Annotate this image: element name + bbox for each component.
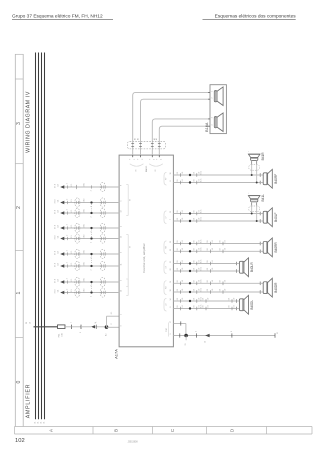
connector pin B40LF x196.8 [196,212,198,216]
wire branch to amp pin upper [107,315,120,317]
wire B41L drop minus [256,202,258,221]
svg-text:3: 3 [121,252,123,253]
node splice B40LR y263.5 [189,262,191,264]
svg-text:4: 4 [212,125,214,126]
svg-text:1.0: 1.0 [182,289,184,291]
A17A left pin bracket 2 [127,235,129,287]
node splice row 4 [90,227,92,229]
wire A17A pin 9 ground [173,335,275,337]
svg-text:1.0: 1.0 [208,305,210,307]
input arrow row 2 [60,201,64,204]
svg-text:0.75: 0.75 [201,288,203,291]
node splice row 7 [90,265,92,267]
svg-text:B40RR: B40RR [274,242,278,253]
svg-text:10A: 10A [61,333,64,337]
connector pin c row 1 [91,185,93,188]
wire output B40LR plus [173,263,236,265]
wire feed segment 2 [72,326,82,328]
node splice B40LF y221.0 [189,220,191,222]
connector pin B40RF x180.6 [180,181,182,185]
node splice B40RR y251.3 [189,250,191,252]
svg-text:5: 5 [121,201,123,202]
svg-text:0.5: 0.5 [71,263,73,265]
wire output B40RR plus [173,243,260,245]
svg-text:AMPLIFIER: AMPLIFIER [26,384,32,419]
svg-text:RADIO: RADIO [145,165,148,172]
svg-text:1.0: 1.0 [198,268,200,270]
A17A left pin bracket 3 [127,279,129,296]
svg-text:1: 1 [212,91,214,92]
A17A right brace pair 4 [164,261,166,274]
loudspeaker B40RF [263,173,267,185]
wire B41R drop minus [256,160,258,182]
connector housing B41L drops [249,206,260,212]
speaker pin tick B40RF y182.5 [259,181,261,185]
node ground junction [184,334,188,338]
connector housing col1 row 8 [75,277,80,286]
input arrow row 4 [60,226,64,229]
top wires connector housing [128,141,166,149]
connector pin B40LR x180.6 [180,262,182,266]
connector housing col2 row 3 [100,208,105,217]
wire input row 7 [64,265,119,267]
connector pin B40DL x232 [231,307,233,311]
svg-text:23: 23 [170,241,172,243]
node B41L junction minus [256,220,258,222]
tweeter B41R [248,153,260,155]
connector pin on feed wire 2 [80,325,82,329]
svg-text:1.0: 1.0 [198,298,200,300]
svg-text:1.0: 1.0 [198,218,200,220]
input arrow row 3 [60,211,64,214]
connector pin a row 3 [67,211,69,214]
svg-text:0.75: 0.75 [201,297,203,300]
input arrow row 7 [60,264,64,267]
grid strip left border [14,54,16,427]
svg-text:1.0: 1.0 [208,298,210,300]
svg-text:10: 10 [121,290,123,292]
svg-text:0.5: 0.5 [71,289,73,291]
wire feed segment 3 [81,326,91,328]
svg-text:0.75: 0.75 [201,305,203,308]
connector pin a row 4 [67,226,69,229]
connector housing col2 row 7 [100,261,105,270]
svg-text:0: 0 [16,380,22,383]
connector housing col2 row 5 [100,234,105,243]
svg-text:1: 1 [121,314,123,315]
connector pin a row 7 [67,264,69,267]
connector pin B40DR x196.8 [196,290,198,294]
connector pin B40RF x196.8 [196,181,198,185]
wire input row 1 [64,186,119,188]
connector pin B40LR x210.5 [210,269,212,273]
svg-text:1.0: 1.0 [182,172,184,174]
connector housing col1 row 4 [75,223,80,232]
wire input row 5 [64,238,119,240]
connector housing col1 row 3 [75,208,80,217]
svg-text:3: 3 [16,122,22,125]
svg-text:2: 2 [67,262,69,263]
svg-text:1: 1 [16,291,22,294]
svg-text:0.5: 0.5 [111,312,113,314]
svg-text:0.75: 0.75 [201,267,203,270]
connector pin B40LR x180.6 [180,269,182,273]
svg-text:2: 2 [67,209,69,210]
node splice B40DR y292.0 [189,291,191,293]
bottom letter strip [15,426,313,428]
svg-text:J3015808: J3015808 [128,442,139,444]
svg-text:15: 15 [170,211,172,213]
svg-text:3: 3 [91,216,93,217]
wire input row 6 [64,253,119,255]
connector pin B40DR x180.6 [180,282,182,286]
svg-text:2: 2 [67,199,69,200]
wire branch junction up to pin [106,316,108,327]
wire bus rail 4 [44,53,46,420]
svg-text:2: 2 [67,250,69,251]
svg-text:2: 2 [212,98,214,99]
wire output B40LR minus [173,270,236,272]
svg-text:102: 102 [15,438,25,444]
connector housing col1 row 5 [75,234,80,243]
connector pin a row 2 [67,201,69,204]
svg-text:1.0: 1.0 [198,280,200,282]
svg-text:B40DR: B40DR [274,282,278,293]
svg-text:B40DL: B40DL [250,300,254,310]
svg-text:1.0: 1.0 [198,172,200,174]
connector pin B40LF x180.6 [180,212,182,216]
svg-text:1.0: 1.0 [234,305,236,307]
connector housing col2 row 1 [100,182,105,191]
speaker pin tick B40DR y283.3 [259,282,261,286]
svg-text:WIRING DIAGRAM IV: WIRING DIAGRAM IV [26,91,32,153]
svg-text:1.0: 1.0 [182,179,184,181]
svg-text:0.5: 0.5 [71,184,73,186]
speaker pin tick B40LR y271.0 [235,269,237,273]
svg-text:9: 9 [121,325,123,326]
svg-text:0.75: 0.75 [201,210,203,213]
svg-text:1.0: 1.0 [212,268,214,270]
svg-text:14: 14 [170,299,172,301]
wire feed from bus to fuse [34,326,58,328]
svg-text:16: 16 [170,173,172,175]
speaker pin tick B40LF y221.0 [259,219,261,223]
svg-text:1.0: 1.0 [182,268,184,270]
node splice row 2 [90,201,92,203]
node splice B40RR y243.5 [189,242,191,244]
connector pin B40LR x196.8 [196,262,198,266]
wire B41L drop plus [251,202,253,214]
wire A17A top pin 1 to B18A [133,92,210,155]
svg-text:B40LR: B40LR [250,262,254,272]
node B41R junction plus [251,174,253,176]
A17A right brace pair 2 [164,211,166,224]
svg-text:31: 31 [44,422,46,424]
svg-text:A17A: A17A [114,349,119,359]
B18A pin for wire 2 [208,98,210,100]
speaker pin tick B40RR y243.5 [259,242,261,246]
A17A bottom right pin bracket [168,323,170,337]
node splice row 6 [90,253,92,255]
svg-text:19: 19 [170,281,172,283]
svg-text:3: 3 [91,296,93,297]
svg-text:31: 31 [41,422,43,424]
wire bus rail 2 [38,53,40,420]
svg-text:Control unit, amplifier: Control unit, amplifier [142,243,146,272]
wire feed to amp pin lower [107,326,120,328]
svg-text:20: 20 [170,269,172,271]
svg-text:+: + [248,151,250,152]
wire input row 9 [64,292,119,294]
connector pin ground wire 1 [195,333,197,337]
node B41R junction minus [256,182,258,184]
ground wire end terminal [274,333,276,337]
wire input row 3 [64,212,119,214]
svg-text:1.0: 1.0 [212,248,214,250]
svg-text:8: 8 [170,181,172,182]
wire A17A top pin 3 to B18A [152,119,210,155]
svg-text:F: F [130,159,132,160]
svg-text:1.0: 1.0 [212,289,214,291]
speaker pin tick B40DL y308.5 [235,307,237,311]
node B41L junction plus [251,213,253,215]
connector pin B40DR x223.0 [222,282,224,286]
B18A pin for wire 3 [208,118,210,120]
wire A17A top pin 4 to B18A [159,126,210,155]
connector housing col1 row 2 [75,198,80,207]
speaker B18A top [214,91,217,102]
node splice row 3 [90,212,92,214]
svg-text:0.5: 0.5 [71,251,73,253]
connector pin B40LF x196.8 [196,219,198,223]
svg-text:31: 31 [277,332,279,334]
B18A pin for wire 1 [208,91,210,93]
speaker pin tick B40RR y251.3 [259,250,261,254]
input arrow row 8 [60,280,64,283]
A17A right brace pair 3 [164,241,166,254]
svg-text:0.75: 0.75 [201,171,203,174]
connector housing col2 row 6 [100,249,105,258]
svg-text:1: 1 [71,322,73,323]
op-amp control unit A17A box [119,155,173,347]
svg-text:A2: A2 [136,138,139,140]
connector housing col1 row 9 [75,288,80,297]
svg-text:F: F [138,159,140,160]
svg-text:13: 13 [121,211,123,213]
svg-text:18: 18 [170,290,172,292]
wire output B40DR plus [173,282,260,284]
wire output B40RF minus [173,182,260,184]
loudspeaker box B18A outline [210,85,226,134]
svg-text:2: 2 [67,183,69,184]
wire output B40DL minus [173,308,236,310]
wire output B40DR minus [173,291,260,293]
connector pin a row 1 [67,185,69,188]
speaker pin tick B40DR y292.0 [259,290,261,294]
connector pin B40DR x180.6 [180,290,182,294]
node junction splice [105,325,109,329]
connector pin a row 8 [67,280,69,283]
node splice B40RF y182.5 [189,181,191,183]
node splice B40RF y175.0 [189,174,191,176]
svg-text:F: F [156,159,158,160]
loudspeaker B40LR [239,261,243,273]
svg-text:11: 11 [121,264,123,266]
connector housing col2 row 8 [100,277,105,286]
connector pin B40RR x210.5 [210,250,212,254]
svg-text:+: + [248,193,250,194]
svg-text:1.0: 1.0 [198,179,200,181]
connector housing col2 row 9 [100,288,105,297]
A17A top pin brace left [130,164,144,166]
svg-text:1.0: 1.0 [225,240,227,242]
wire shield link pair 3 [91,256,93,265]
svg-text:1.0: 1.0 [198,260,200,262]
svg-text:22: 22 [170,249,172,251]
svg-text:0.75: 0.75 [201,247,203,250]
connector pin B40LR x196.8 [196,269,198,273]
connector pin B40DR x223.0 [222,290,224,294]
svg-text:31: 31 [35,422,37,424]
svg-text:1.0: 1.0 [182,260,184,262]
svg-text:31: 31 [38,422,40,424]
connector pin B40DL x206 [205,307,207,311]
wire output B40RF plus [173,174,260,176]
wire A17A top pin 2 to B18A [141,99,211,155]
speaker pin tick B40LR y263.5 [235,262,237,266]
ground stub below junction [185,336,187,341]
connector pin B40DL x196.8 [196,307,198,311]
loudspeaker B40RR [263,242,267,254]
connector housing col1 row 1 [76,185,78,189]
svg-text:2: 2 [67,289,69,290]
wire output B40LF minus [173,220,260,222]
input arrow row 9 [60,291,64,294]
svg-text:1.0: 1.0 [212,260,214,262]
loudspeaker B40LF [263,211,267,223]
svg-text:B40RF: B40RF [274,174,278,184]
svg-text:0.5: 0.5 [71,199,73,201]
connector pin B40RR x180.6 [180,242,182,246]
grid strip divider ticks [15,53,23,55]
svg-text:9: 9 [170,334,172,335]
connector pin on feed wire 3 [96,325,98,329]
svg-text:3: 3 [91,242,93,243]
A17A right brace pair 6 [164,298,166,311]
svg-text:2: 2 [67,278,69,279]
svg-text:0.5: 0.5 [71,225,73,227]
svg-text:6: 6 [170,307,172,308]
connector pin B40RR x223.0 [222,250,224,254]
wire feed segment 4 [95,326,106,328]
connector pin on feed wire [71,325,73,329]
connector pin a row 6 [67,252,69,255]
wire output B40RR minus [173,250,260,252]
svg-text:2: 2 [67,235,69,236]
connector housing B41R drops [249,165,260,171]
node splice B40DR y283.3 [189,282,191,284]
connector pin B40DL x196.8 [196,299,198,303]
input arrow row 5 [60,237,64,240]
connector pin B40DR x210.5 [210,282,212,286]
connector pin B40DL x180.6 [180,299,182,303]
svg-text:4: 4 [161,159,163,160]
svg-text:7: 7 [170,219,172,220]
svg-text:1.0: 1.0 [182,218,184,220]
speaker B18A bottom [214,117,217,128]
svg-text:1.0: 1.0 [225,248,227,250]
connector pin B40RF x180.6 [180,173,182,177]
inline arrow on feed wire [91,325,95,328]
svg-text:3: 3 [212,117,214,118]
wire bus rail 1 [35,53,37,420]
wire shield link pair 2 [91,230,93,238]
connector pins on top wire 4 [158,143,161,145]
wire output B40LF plus [173,213,260,215]
wire fuse to connector [65,326,72,328]
svg-text:0.75: 0.75 [201,260,203,263]
A17A right brace pair 5 [164,281,166,295]
node splice row 8 [90,281,92,283]
connector pin a row 9 [67,291,69,294]
svg-text:1.0: 1.0 [225,280,227,282]
svg-text:1: 1 [134,159,136,160]
svg-text:A2: A2 [133,138,136,140]
svg-text:1.0: 1.0 [198,289,200,291]
svg-text:0.5: 0.5 [71,279,73,281]
fuse F34 [58,325,66,329]
connector pin B40LF x180.6 [180,219,182,223]
speaker pin tick B40LF y213.5 [259,212,261,216]
node splice row 5 [90,237,92,239]
wire input row 8 [64,281,119,283]
svg-text:2: 2 [121,280,123,281]
svg-text:3: 3 [91,190,93,191]
connector pin B40RR x196.8 [196,250,198,254]
svg-text:1.0: 1.0 [182,305,184,307]
connector housing col1 row 6 [75,249,80,258]
input arrow row 6 [60,252,64,255]
connector housing col1 row 7 [75,261,80,270]
wire output B40DL plus [173,300,236,302]
svg-text:1: 1 [195,331,197,332]
wire shield link pair 4 [91,284,93,292]
svg-text:1.0: 1.0 [212,280,214,282]
svg-text:1.0: 1.0 [182,280,184,282]
svg-text:0.75: 0.75 [201,279,203,282]
connector housing col2 row 4 [100,223,105,232]
A17A right brace pair 1 [164,172,166,185]
connector housing col2 row 2 [100,198,105,207]
svg-text:1.0: 1.0 [198,240,200,242]
connector pin a row 5 [67,237,69,240]
svg-text:31: 31 [185,344,187,346]
svg-text:0.5: 0.5 [71,210,73,212]
svg-text:1.0: 1.0 [198,305,200,307]
A17A top pin brace right [149,164,163,166]
node splice B40DL y308.5 [189,307,191,309]
svg-text:B41L: B41L [261,194,265,202]
svg-text:0.75: 0.75 [201,217,203,220]
B18A pin for wire 4 [208,125,210,127]
svg-text:1.0: 1.0 [225,289,227,291]
svg-text:4: 4 [121,226,123,227]
wire input row 4 [64,227,119,229]
node splice B40DL y301.0 [189,300,191,302]
svg-text:6: 6 [121,185,123,186]
svg-text:Grupo 37 Esquema elétrico FM,: Grupo 37 Esquema elétrico FM, FH, NH12 [12,14,103,20]
svg-text:1.0: 1.0 [182,240,184,242]
